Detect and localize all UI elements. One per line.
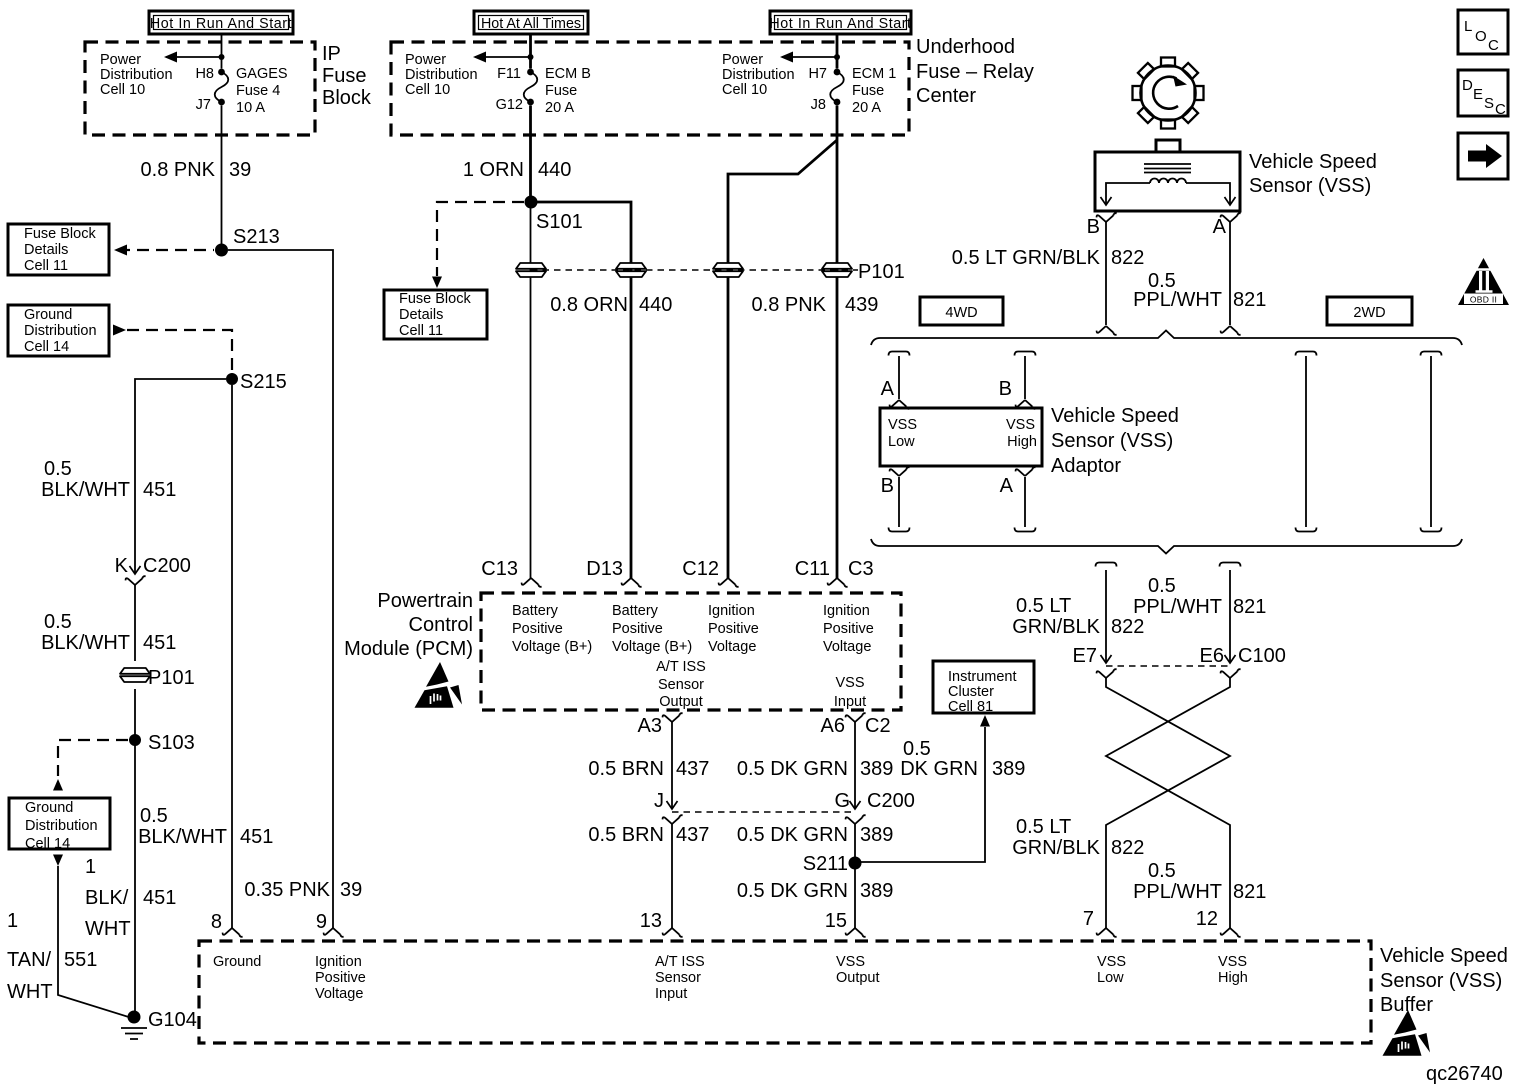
svg-text:F11: F11 xyxy=(497,66,521,82)
svg-text:Instrument: Instrument xyxy=(948,669,1017,685)
svg-text:S101: S101 xyxy=(536,211,583,233)
svg-text:B: B xyxy=(999,378,1012,400)
svg-text:Cell 11: Cell 11 xyxy=(24,258,68,274)
svg-text:Fuse 4: Fuse 4 xyxy=(236,83,280,99)
svg-text:39: 39 xyxy=(340,879,362,901)
svg-text:Fuse – Relay: Fuse – Relay xyxy=(916,61,1034,83)
svg-text:Power: Power xyxy=(100,52,141,68)
svg-text:H8: H8 xyxy=(195,66,214,82)
svg-text:E: E xyxy=(1473,86,1483,103)
svg-text:Ignition: Ignition xyxy=(315,954,362,970)
svg-text:Positive: Positive xyxy=(823,621,874,637)
svg-text:Voltage (B+): Voltage (B+) xyxy=(512,639,592,655)
svg-text:J8: J8 xyxy=(811,97,826,113)
svg-text:20 A: 20 A xyxy=(852,100,881,116)
svg-text:2WD: 2WD xyxy=(1353,305,1385,321)
svg-text:Voltage: Voltage xyxy=(315,986,363,1002)
svg-text:S215: S215 xyxy=(240,371,287,393)
svg-text:VSS: VSS xyxy=(1097,954,1126,970)
svg-text:Voltage: Voltage xyxy=(708,639,756,655)
svg-text:Ground: Ground xyxy=(25,800,73,816)
svg-text:PPL/WHT: PPL/WHT xyxy=(1133,289,1222,311)
svg-text:C100: C100 xyxy=(1238,645,1286,667)
svg-text:PPL/WHT: PPL/WHT xyxy=(1133,596,1222,618)
svg-text:0.5: 0.5 xyxy=(1148,575,1176,597)
svg-text:BLK/WHT: BLK/WHT xyxy=(41,632,130,654)
svg-text:VSS: VSS xyxy=(888,417,917,433)
svg-text:Fuse: Fuse xyxy=(322,65,366,87)
svg-text:A: A xyxy=(881,378,895,400)
svg-text:Fuse Block: Fuse Block xyxy=(399,291,471,307)
svg-text:Details: Details xyxy=(399,307,443,323)
svg-text:822: 822 xyxy=(1111,837,1144,859)
svg-text:Hot In Run And Start: Hot In Run And Start xyxy=(769,16,911,32)
svg-text:TAN/: TAN/ xyxy=(7,949,52,971)
svg-text:Cell 81: Cell 81 xyxy=(948,699,993,715)
svg-text:Cell 10: Cell 10 xyxy=(100,82,145,98)
svg-text:DK GRN: DK GRN xyxy=(900,758,978,780)
svg-text:389: 389 xyxy=(860,758,893,780)
svg-text:Vehicle Speed: Vehicle Speed xyxy=(1380,945,1508,967)
svg-text:39: 39 xyxy=(229,159,251,181)
svg-text:0.8 PNK: 0.8 PNK xyxy=(141,159,216,181)
svg-text:Hot At All Times: Hot At All Times xyxy=(481,16,581,32)
svg-text:C200: C200 xyxy=(143,555,191,577)
svg-text:0.5 DK GRN: 0.5 DK GRN xyxy=(737,758,848,780)
svg-text:Input: Input xyxy=(834,694,866,710)
svg-text:P101: P101 xyxy=(858,261,905,283)
svg-text:WHT: WHT xyxy=(85,918,131,940)
svg-text:Sensor (VSS): Sensor (VSS) xyxy=(1051,430,1173,452)
svg-text:H7: H7 xyxy=(808,66,827,82)
svg-text:1: 1 xyxy=(7,910,18,932)
svg-text:Details: Details xyxy=(24,242,68,258)
svg-text:Adaptor: Adaptor xyxy=(1051,455,1121,477)
svg-text:O: O xyxy=(1475,28,1487,45)
svg-text:0.8 PNK: 0.8 PNK xyxy=(752,294,827,316)
svg-text:551: 551 xyxy=(64,949,97,971)
svg-text:VSS: VSS xyxy=(836,954,865,970)
svg-text:Fuse Block: Fuse Block xyxy=(24,226,96,242)
svg-text:8: 8 xyxy=(211,911,222,933)
svg-text:822: 822 xyxy=(1111,616,1144,638)
svg-text:Low: Low xyxy=(888,434,915,450)
svg-text:High: High xyxy=(1218,970,1248,986)
svg-text:Buffer: Buffer xyxy=(1380,994,1433,1016)
svg-text:A: A xyxy=(1000,475,1014,497)
svg-text:Module (PCM): Module (PCM) xyxy=(344,638,473,660)
svg-text:0.5: 0.5 xyxy=(140,805,168,827)
svg-text:J: J xyxy=(654,790,664,812)
svg-text:13: 13 xyxy=(640,910,662,932)
svg-text:12: 12 xyxy=(1196,908,1218,930)
svg-text:A3: A3 xyxy=(638,715,662,737)
svg-text:439: 439 xyxy=(845,294,878,316)
svg-text:Underhood: Underhood xyxy=(916,36,1015,58)
svg-text:389: 389 xyxy=(992,758,1025,780)
svg-text:Ground: Ground xyxy=(213,954,261,970)
svg-text:G12: G12 xyxy=(496,97,523,113)
svg-text:Cell 11: Cell 11 xyxy=(399,323,443,339)
svg-text:WHT: WHT xyxy=(7,981,53,1003)
svg-text:0.5 DK GRN: 0.5 DK GRN xyxy=(737,880,848,902)
svg-text:Cell 14: Cell 14 xyxy=(25,836,70,852)
svg-text:821: 821 xyxy=(1233,881,1266,903)
svg-text:822: 822 xyxy=(1111,247,1144,269)
svg-text:VSS: VSS xyxy=(1006,417,1035,433)
svg-text:1: 1 xyxy=(85,856,96,878)
svg-text:Sensor (VSS): Sensor (VSS) xyxy=(1249,175,1371,197)
svg-text:Power: Power xyxy=(405,52,446,68)
svg-text:VSS: VSS xyxy=(1218,954,1247,970)
svg-text:C3: C3 xyxy=(848,558,874,580)
svg-text:Cluster: Cluster xyxy=(948,684,994,700)
svg-text:389: 389 xyxy=(860,824,893,846)
svg-text:C200: C200 xyxy=(867,790,915,812)
svg-text:0.5: 0.5 xyxy=(44,458,72,480)
svg-text:G: G xyxy=(834,790,850,812)
svg-text:Sensor: Sensor xyxy=(658,677,704,693)
svg-text:BLK/WHT: BLK/WHT xyxy=(41,479,130,501)
svg-text:Cell 14: Cell 14 xyxy=(24,339,69,355)
svg-text:0.5: 0.5 xyxy=(44,611,72,633)
svg-text:C11: C11 xyxy=(795,558,830,580)
svg-text:Distribution: Distribution xyxy=(24,323,97,339)
svg-text:A6: A6 xyxy=(821,715,845,737)
svg-text:0.5: 0.5 xyxy=(1148,860,1176,882)
svg-text:Ignition: Ignition xyxy=(823,603,870,619)
svg-text:IP: IP xyxy=(322,43,341,65)
svg-text:Block: Block xyxy=(322,87,372,109)
svg-text:437: 437 xyxy=(676,824,709,846)
svg-text:C13: C13 xyxy=(481,558,518,580)
svg-text:Output: Output xyxy=(659,694,703,710)
svg-text:Ignition: Ignition xyxy=(708,603,755,619)
svg-text:Vehicle Speed: Vehicle Speed xyxy=(1249,151,1377,173)
svg-text:C: C xyxy=(1488,37,1499,54)
svg-text:C: C xyxy=(1495,101,1506,118)
svg-text:10 A: 10 A xyxy=(236,100,265,116)
svg-text:B: B xyxy=(1087,216,1100,238)
svg-text:S211: S211 xyxy=(803,853,848,875)
svg-text:GAGES: GAGES xyxy=(236,66,288,82)
svg-text:440: 440 xyxy=(538,159,571,181)
svg-text:Fuse: Fuse xyxy=(545,83,577,99)
svg-text:Hot In Run And Start: Hot In Run And Start xyxy=(150,16,292,32)
svg-text:Distribution: Distribution xyxy=(722,67,795,83)
svg-text:Center: Center xyxy=(916,85,976,107)
svg-text:Voltage: Voltage xyxy=(823,639,871,655)
svg-text:BLK/: BLK/ xyxy=(85,887,129,909)
svg-text:S103: S103 xyxy=(148,732,195,754)
svg-text:ECM B: ECM B xyxy=(545,66,591,82)
svg-text:4WD: 4WD xyxy=(945,305,977,321)
svg-text:Battery: Battery xyxy=(512,603,559,619)
svg-text:A/T ISS: A/T ISS xyxy=(656,659,706,675)
svg-text:15: 15 xyxy=(825,910,847,932)
svg-text:Ground: Ground xyxy=(24,307,72,323)
svg-text:451: 451 xyxy=(143,887,176,909)
svg-text:389: 389 xyxy=(860,880,893,902)
svg-text:S: S xyxy=(1484,95,1494,112)
svg-text:451: 451 xyxy=(240,826,273,848)
svg-text:GRN/BLK: GRN/BLK xyxy=(1012,616,1100,638)
svg-text:821: 821 xyxy=(1233,596,1266,618)
svg-text:0.5 BRN: 0.5 BRN xyxy=(588,758,664,780)
svg-text:0.5 LT: 0.5 LT xyxy=(1016,816,1071,838)
svg-text:Control: Control xyxy=(409,614,473,636)
svg-text:Low: Low xyxy=(1097,970,1124,986)
svg-text:Cell 10: Cell 10 xyxy=(722,82,767,98)
svg-text:G104: G104 xyxy=(148,1009,197,1031)
svg-text:Cell 10: Cell 10 xyxy=(405,82,450,98)
svg-text:0.5 BRN: 0.5 BRN xyxy=(588,824,664,846)
svg-text:L: L xyxy=(1464,18,1472,35)
svg-text:GRN/BLK: GRN/BLK xyxy=(1012,837,1100,859)
svg-text:Power: Power xyxy=(722,52,763,68)
svg-text:0.5 DK GRN: 0.5 DK GRN xyxy=(737,824,848,846)
svg-text:K: K xyxy=(115,555,129,577)
svg-text:S213: S213 xyxy=(233,226,280,248)
svg-text:High: High xyxy=(1007,434,1037,450)
svg-text:821: 821 xyxy=(1233,289,1266,311)
svg-text:Battery: Battery xyxy=(612,603,659,619)
svg-text:Sensor (VSS): Sensor (VSS) xyxy=(1380,970,1502,992)
svg-text:9: 9 xyxy=(316,911,327,933)
svg-text:437: 437 xyxy=(676,758,709,780)
svg-text:Fuse: Fuse xyxy=(852,83,884,99)
svg-text:Distribution: Distribution xyxy=(405,67,478,83)
svg-text:D: D xyxy=(1462,77,1473,94)
svg-text:0.5 LT: 0.5 LT xyxy=(1016,595,1071,617)
svg-text:0.35 PNK: 0.35 PNK xyxy=(244,879,330,901)
svg-text:Input: Input xyxy=(655,986,687,1002)
svg-text:B: B xyxy=(881,475,894,497)
svg-text:20 A: 20 A xyxy=(545,100,574,116)
svg-text:P101: P101 xyxy=(148,667,195,689)
svg-text:E6: E6 xyxy=(1200,645,1224,667)
svg-text:1 ORN: 1 ORN xyxy=(463,159,524,181)
svg-text:Positive: Positive xyxy=(512,621,563,637)
svg-text:451: 451 xyxy=(143,632,176,654)
svg-text:7: 7 xyxy=(1083,908,1094,930)
svg-text:Voltage (B+): Voltage (B+) xyxy=(612,639,692,655)
svg-text:0.5 LT GRN/BLK: 0.5 LT GRN/BLK xyxy=(952,247,1101,269)
svg-text:Distribution: Distribution xyxy=(100,67,173,83)
svg-text:Positive: Positive xyxy=(612,621,663,637)
svg-text:0.8 ORN: 0.8 ORN xyxy=(550,294,628,316)
svg-text:Output: Output xyxy=(836,970,880,986)
svg-text:A: A xyxy=(1213,216,1227,238)
svg-text:ECM 1: ECM 1 xyxy=(852,66,896,82)
svg-text:451: 451 xyxy=(143,479,176,501)
svg-text:VSS: VSS xyxy=(835,675,864,691)
svg-text:Powertrain: Powertrain xyxy=(377,590,473,612)
svg-text:qc26740: qc26740 xyxy=(1426,1063,1503,1085)
svg-text:Sensor: Sensor xyxy=(655,970,701,986)
svg-text:J7: J7 xyxy=(196,97,211,113)
svg-text:OBD II: OBD II xyxy=(1470,295,1497,305)
svg-text:Positive: Positive xyxy=(708,621,759,637)
svg-text:PPL/WHT: PPL/WHT xyxy=(1133,881,1222,903)
svg-text:0.5: 0.5 xyxy=(903,738,931,760)
svg-text:D13: D13 xyxy=(586,558,623,580)
svg-text:Vehicle Speed: Vehicle Speed xyxy=(1051,405,1179,427)
svg-text:Distribution: Distribution xyxy=(25,818,98,834)
svg-text:E7: E7 xyxy=(1073,645,1097,667)
svg-text:BLK/WHT: BLK/WHT xyxy=(138,826,227,848)
svg-text:440: 440 xyxy=(639,294,672,316)
svg-text:C2: C2 xyxy=(865,715,891,737)
svg-text:C12: C12 xyxy=(682,558,719,580)
svg-text:Positive: Positive xyxy=(315,970,366,986)
svg-text:A/T ISS: A/T ISS xyxy=(655,954,705,970)
